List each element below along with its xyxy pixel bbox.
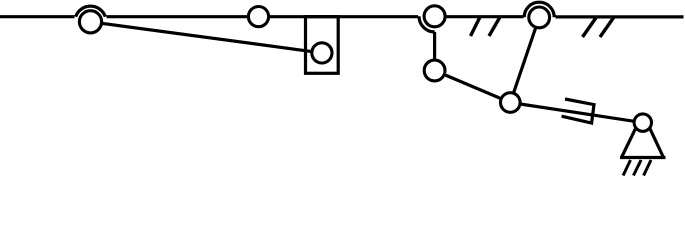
ground rail segment 3 (through slider top) [269, 15, 418, 18]
slider block rectangle [306, 17, 339, 74]
ground anchor base line [620, 156, 666, 159]
slider pin joint J3 [312, 43, 332, 63]
prismatic sleeve bracket [562, 99, 594, 123]
ground rail segment 4 [446, 15, 524, 18]
pin joint J6 [529, 7, 550, 28]
pin joint J1 [79, 11, 101, 33]
ground anchor triangle right side [643, 114, 664, 158]
link J7 to J8 piston rod [510, 103, 643, 123]
link J4 to J5 vertical [433, 32, 436, 71]
ground anchor triangle left side [622, 114, 643, 158]
ground hatch 1b [489, 17, 500, 36]
link J1 to slider pin [91, 22, 322, 53]
ground hatch 2a [583, 17, 597, 37]
pin joint J5 [424, 60, 445, 81]
ground hatch 2b [600, 17, 614, 37]
link J6 to J7 [510, 17, 539, 102]
anchored pin joint J8 [634, 114, 651, 131]
pin joint J7 [501, 93, 521, 113]
anchor hatch 2 [633, 160, 641, 176]
anchor hatch 3 [644, 160, 651, 176]
ground rail segment right [556, 15, 684, 18]
pin joint J2 [248, 7, 268, 27]
joint J1 cap arc [76, 6, 106, 17]
joint J6 cap arc [524, 2, 554, 17]
ground rail segment left [0, 15, 75, 18]
ground rail segment 2 [107, 15, 249, 18]
joint J4 quarter arc [419, 16, 435, 32]
ground hatch 1a [471, 17, 481, 36]
link J5 to J7 [435, 71, 511, 103]
pin joint J4 [424, 6, 445, 27]
anchor hatch 1 [623, 160, 630, 176]
